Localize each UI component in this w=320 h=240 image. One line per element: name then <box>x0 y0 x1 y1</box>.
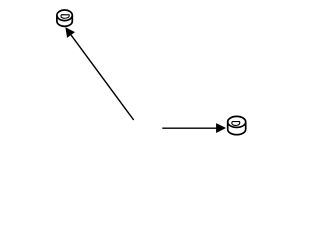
edge arrow E2: horizontal, pointing right at node N2 <box>162 124 225 132</box>
node N2: spool/ring icon (bottom-right) <box>228 116 246 134</box>
node N1: spool/ring icon (top-left) <box>57 10 72 26</box>
edge arrow E1: from (133.7,120) pointing up-left at node N1 <box>66 28 134 120</box>
